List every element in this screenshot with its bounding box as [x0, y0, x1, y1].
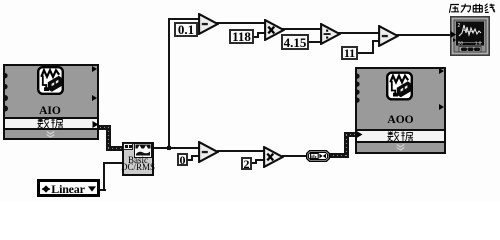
AOO data-in arrow	[356, 131, 363, 138]
AIO right edge marks	[92, 66, 98, 102]
Linear ring constant	[37, 179, 100, 197]
AIO express VI block	[3, 64, 99, 140]
subtract U2 (top)	[198, 13, 219, 35]
wire: constant 4.15 to divide U4 lower input	[309, 41, 322, 43]
waveform chart terminal 压力曲线	[450, 16, 490, 56]
svg-text:2: 2	[458, 23, 461, 29]
wire: subtract U2 output to multiply U3	[216, 22, 266, 24]
wire: subtract U6 output to multiply U7	[217, 150, 265, 152]
constant 118	[229, 29, 254, 44]
AIO data-out arrow	[92, 121, 99, 128]
AIO white data bar	[5, 117, 97, 130]
thick dynamic-data wire: AIO data out to Basic DC/RMS input	[96, 125, 111, 130]
svg-text:1.0: 1.0	[475, 41, 482, 46]
wire: constant 2 jog to multiply U7 lower input	[251, 162, 257, 164]
AOO DAQ icon	[386, 71, 413, 101]
wire: constant 0 jog to subtract U6 lower input	[188, 159, 193, 161]
Basic DC/RMS main icon	[134, 143, 152, 158]
AIO DAQ icon	[37, 66, 64, 95]
wire: subtract U5 output to waveform chart terminal	[396, 34, 452, 36]
thick dynamic-data wire: converter U8 out to AOO data input	[329, 153, 348, 158]
converter U8: convert to dynamic data	[306, 150, 330, 162]
wire: multiply U3 output to divide U4	[281, 28, 322, 30]
multiply U3	[264, 19, 285, 41]
ring glyph	[42, 185, 50, 193]
junction dot on trunk	[167, 146, 171, 150]
wire: constant 11 jog to subtract U5 lower input	[357, 52, 374, 54]
Basic DC/RMS caption	[113, 157, 163, 172]
AOO express VI block	[355, 67, 446, 154]
subtract U5	[378, 25, 399, 47]
constant 2	[241, 157, 252, 170]
AOO right edge marks	[439, 67, 445, 111]
AOO white data bar	[357, 129, 444, 143]
wire: vertical trunk from Basic DC/RMS output up to top row	[168, 18, 170, 150]
constant 11	[341, 46, 358, 60]
AOO 数据 glyphs	[387, 131, 414, 142]
wire: multiply U7 output to converter U8	[282, 155, 308, 157]
AOO label	[355, 114, 446, 126]
dropdown arrow	[88, 186, 96, 192]
waveform chart label 压力曲线	[447, 3, 497, 15]
svg-text:50: 50	[458, 41, 464, 46]
Basic DC/RMS mini terminal icon	[123, 143, 133, 150]
Basic DC/RMS express VI	[122, 142, 154, 176]
multiply U7	[263, 146, 284, 168]
divide U4	[320, 23, 341, 45]
AIO chevron	[46, 131, 55, 138]
constant 0	[177, 153, 188, 166]
AOO left edge bumps	[357, 73, 362, 104]
wire: Basic DC/RMS output to subtract U6 upper input	[152, 147, 200, 149]
wire: constant 118 jog to multiply U3 lower input	[253, 36, 258, 38]
subtract U6 (bottom)	[198, 141, 219, 163]
wire: divide U4 output to subtract U5	[338, 32, 380, 34]
wire: top horizontal into subtract U2 upper input	[168, 18, 199, 20]
wire: Linear ring constant up to Basic DC/RMS input	[100, 189, 106, 191]
AIO label	[3, 105, 97, 117]
AOO chevron	[396, 144, 405, 151]
constant 4.15	[281, 34, 309, 50]
constant 0.1	[174, 22, 198, 37]
AIO left edge bumps	[5, 72, 10, 114]
AIO 数据 glyphs	[37, 118, 64, 129]
